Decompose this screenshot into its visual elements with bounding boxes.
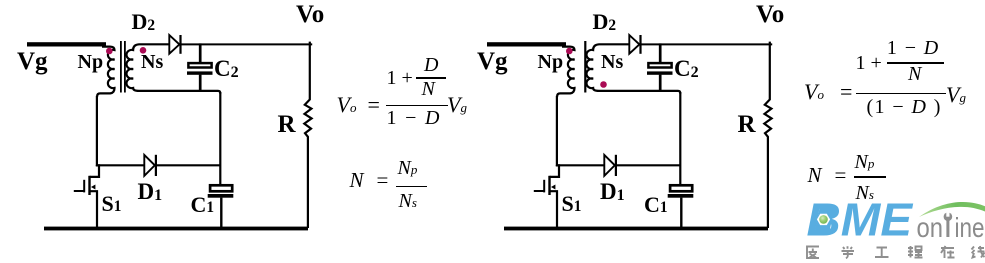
wire secondary-bottom node to C1/D1 node (left) [219,92,221,185]
diode D2 (right) [629,35,640,54]
capacitor C2 (left) [187,43,213,92]
label C1 (right) [644,194,668,216]
label S1 (left) [102,193,122,215]
char cheng [908,246,923,258]
label D2 (right) [593,11,617,33]
char xue [842,246,855,258]
formula 2 left: N = Np/Ns [350,170,389,191]
logo hexagon nut in B [817,214,830,225]
formula 1 right: Vo = (1 + (1-D)/N)/((1-D)) Vg [804,81,852,103]
label D1 (right) [600,180,625,203]
label Vo (left) [296,2,324,27]
wire secondary-bottom node to C1/D1 node (right) [679,92,681,185]
wire primary-bottom to switch node (left) [96,96,98,166]
ground rail (right, thick) [504,227,768,231]
ground rail (left, thick) [44,227,308,231]
label C1 (left) [191,194,215,216]
polarity dot primary (left) [106,48,113,55]
BME online logo [807,193,985,258]
transformer secondary winding Ns (left) [126,44,220,94]
transformer primary winding Np (left) [97,47,114,97]
wire D1 branch (left) [96,164,220,166]
logo green swoosh [919,202,985,217]
resistor R with Vo drop wire (right) [764,42,771,228]
label Np (left) [78,52,104,72]
transformer secondary winding Ns (right) [586,44,680,94]
polarity dot primary (right) [566,48,573,55]
svg-text:ine: ine [955,212,985,243]
wire D1 branch (right) [556,164,680,166]
label Vo (right) [756,2,784,27]
polarity dot secondary bottom (right) [600,81,607,88]
formula 2 right: N = Np/Ns [808,165,847,186]
transformer primary winding Np (right) [557,47,574,97]
label R (left) [278,112,296,137]
label C2 (left) [214,57,239,80]
wire D2 cathode to Vo corner (left) [181,43,313,45]
label Ns (left) [141,52,163,72]
MOSFET S1 (right) [534,165,559,228]
capacitor C2 (right) [647,43,673,92]
label D1 (left) [138,180,163,203]
char xian [972,246,985,258]
label Vg (right) [477,49,508,74]
wire primary-bottom to switch node (right) [556,96,558,166]
label R (right) [738,112,756,137]
formula 1 left: Vo = (1 + D/N)/(1-D) Vg [337,94,380,116]
capacitor C1 (left) [208,185,234,228]
char yi [807,247,819,259]
label Ns (right) [601,52,623,72]
transformer core (right) [584,41,586,93]
resistor R with Vo drop wire (left) [304,42,311,228]
char gong [875,248,889,258]
transformer core (left) [120,41,122,93]
diode D2 (left) [169,35,180,54]
logo chinese characters [807,246,985,258]
svg-text:on: on [917,212,944,243]
diode D1 (right) [604,155,616,176]
logo green ball [819,215,828,224]
char zai [941,246,955,258]
logo B counter fill [814,206,835,235]
diode D1 (left) [144,155,156,176]
wire Vg feed (left, thick) [27,42,106,46]
polarity dot secondary (left) [140,47,147,54]
wire Vg feed (right, thick) [487,42,566,46]
wire D2 cathode to Vo corner (right) [641,43,773,45]
label D2 (left) [132,11,156,33]
MOSFET S1 (left) [74,165,99,228]
label Np (right) [538,52,564,72]
capacitor C1 (right) [668,185,694,228]
label Vg (left) [17,49,48,74]
label S1 (right) [562,193,582,215]
label C2 (right) [674,57,699,80]
